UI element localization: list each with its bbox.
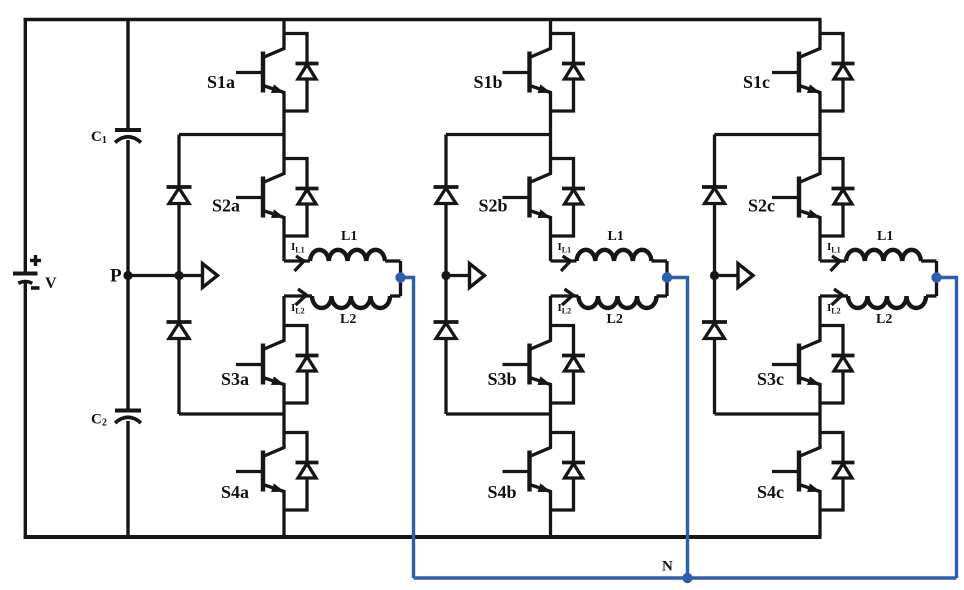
svg-text:L1: L1 — [608, 229, 624, 244]
wire: capacitor rail upper — [126, 18, 129, 130]
wire: L2 to S3c collector — [818, 296, 821, 326]
svg-text:S1b: S1b — [474, 72, 503, 92]
transistor S3a (IGBT) — [236, 326, 285, 404]
inductor L2 (phase a) — [284, 296, 401, 308]
svg-text:L2: L2 — [607, 312, 623, 327]
wire: S4b emitter to bottom bus — [549, 510, 552, 537]
wire: S2b emitter to L1 — [549, 236, 552, 261]
inductor L1 (phase b) — [551, 250, 668, 261]
transistor S1c (IGBT) — [772, 34, 821, 112]
current arrow IL1 (phase c) — [831, 256, 841, 271]
svg-text:S3a: S3a — [221, 369, 249, 389]
wire: clamp diode rail (phase b) — [444, 135, 447, 415]
node P dot — [123, 271, 132, 280]
wire: phase b output to N bus (blue) — [667, 278, 688, 579]
transistor S2a (IGBT) — [236, 159, 285, 237]
clamp diode lower, phase a — [167, 322, 192, 339]
wire: top bus to S1c collector — [818, 20, 821, 34]
svg-text:C2: C2 — [91, 412, 107, 429]
freewheeling diode of S3c — [820, 326, 855, 404]
wire: clamp diode rail (phase a) — [177, 135, 180, 415]
transistor S4a (IGBT) — [236, 433, 285, 511]
wire: junction to gate-drive arrow (phase c) — [715, 274, 739, 277]
battery V (DC source) — [13, 274, 38, 284]
arrow marker (phase b) — [470, 264, 485, 288]
freewheeling diode of S2c — [820, 159, 855, 237]
inductor L1 (phase c) — [820, 250, 937, 261]
wire: S4c emitter to bottom bus — [818, 510, 821, 537]
wire: S3c emitter to S4c collector — [818, 403, 821, 433]
svg-text:IL1: IL1 — [558, 241, 572, 255]
current arrow IL2 (phase c) — [832, 289, 843, 305]
wire: clamp top link (phase c) — [715, 133, 821, 136]
svg-text:IL1: IL1 — [291, 241, 305, 255]
wire: clamp bottom link (phase c) — [715, 412, 821, 415]
svg-text:IL1: IL1 — [827, 241, 841, 255]
svg-text:C1: C1 — [91, 129, 107, 146]
freewheeling diode of S1a — [284, 34, 319, 112]
inductor L1 (phase a) — [284, 250, 401, 261]
freewheeling diode of S3a — [284, 326, 319, 404]
svg-text:S4c: S4c — [757, 482, 784, 502]
current arrow IL2 (phase a) — [296, 289, 307, 305]
clamp diode upper, phase a — [167, 187, 192, 204]
current arrow IL2 (phase b) — [562, 289, 573, 305]
node: phase a output dot — [395, 272, 405, 282]
wire: L1/L2 output corner (phase a) — [399, 261, 402, 296]
svg-text:S3b: S3b — [488, 369, 517, 389]
wire: L2 to S3a collector — [282, 296, 285, 326]
clamp diode upper, phase c — [702, 187, 727, 204]
arrow marker (phase a) — [203, 264, 218, 288]
svg-text:L2: L2 — [340, 312, 356, 327]
junction dot: clamp midpoint phase b — [441, 271, 450, 280]
wire: capacitor rail middle — [126, 140, 129, 411]
svg-text:S1a: S1a — [207, 72, 235, 92]
wire: N bus (blue) — [414, 576, 957, 579]
wire: L1/L2 output corner (phase c) — [935, 261, 938, 296]
capacitor C1 — [115, 130, 141, 143]
transistor S3b (IGBT) — [503, 326, 552, 404]
wire: S3b emitter to S4b collector — [549, 403, 552, 433]
wire: clamp top link (phase a) — [179, 133, 284, 136]
transistor S4c (IGBT) — [772, 433, 821, 511]
svg-text:S2b: S2b — [479, 196, 508, 216]
svg-text:S4b: S4b — [488, 482, 517, 502]
wire: S1a emitter to S2a collector — [282, 111, 285, 159]
svg-text:P: P — [110, 266, 122, 287]
freewheeling diode of S2b — [551, 159, 586, 237]
capacitor C2 — [115, 411, 141, 424]
wire: capacitor rail lower — [126, 421, 129, 539]
wire: top bus to S1b collector — [549, 20, 552, 34]
wire: junction to gate-drive arrow (phase b) — [446, 274, 470, 277]
svg-text:S2a: S2a — [212, 196, 240, 216]
wire: clamp bottom link (phase b) — [446, 412, 551, 415]
wire: phase c output to N bus (blue) — [937, 278, 957, 579]
svg-text:S4a: S4a — [221, 482, 249, 502]
freewheeling diode of S1c — [820, 34, 855, 112]
node N dot — [682, 573, 692, 583]
svg-text:L2: L2 — [876, 312, 892, 327]
inductor L2 (phase c) — [820, 296, 937, 308]
svg-text:L1: L1 — [341, 229, 357, 244]
current arrow IL1 (phase a) — [295, 256, 305, 271]
transistor S3c (IGBT) — [772, 326, 821, 404]
label + (battery plus) — [30, 255, 41, 266]
wire: clamp bottom link (phase a) — [179, 412, 284, 415]
node: phase c output dot — [931, 272, 941, 282]
transistor S1a (IGBT) — [236, 34, 285, 112]
wire: top bus to S1a collector — [282, 20, 285, 34]
transistor S1b (IGBT) — [503, 34, 552, 112]
wire: left rail upper (battery +) — [24, 18, 27, 272]
wire: S3a emitter to S4a collector — [282, 403, 285, 433]
transistor S2c (IGBT) — [772, 159, 821, 237]
label - (battery minus) — [31, 286, 40, 290]
clamp diode lower, phase c — [702, 322, 727, 339]
current arrow IL1 (phase b) — [561, 256, 571, 271]
wire: L2 to S3b collector — [549, 296, 552, 326]
wire: S4a emitter to bottom bus — [282, 510, 285, 537]
arrow marker (phase c) — [738, 264, 753, 288]
svg-text:S3c: S3c — [757, 369, 784, 389]
svg-text:V: V — [45, 275, 57, 292]
wire: S2a emitter to L1 — [282, 236, 285, 261]
transistor S4b (IGBT) — [503, 433, 552, 511]
wire: top DC bus — [24, 18, 822, 21]
wire: S2c emitter to L1 — [818, 236, 821, 261]
svg-text:N: N — [662, 559, 673, 575]
wire: phase a output to N bus (blue) — [401, 278, 414, 579]
wire: S1b emitter to S2b collector — [549, 111, 552, 159]
wire: junction to gate-drive arrow (phase a) — [179, 274, 203, 277]
freewheeling diode of S2a — [284, 159, 319, 237]
wire: L1/L2 output corner (phase b) — [665, 261, 668, 296]
freewheeling diode of S1b — [551, 34, 586, 112]
junction dot: clamp midpoint phase a — [174, 271, 183, 280]
node: phase b output dot — [662, 272, 672, 282]
wire: left rail lower (battery -) — [24, 281, 27, 539]
transistor S2b (IGBT) — [503, 159, 552, 237]
clamp diode upper, phase b — [434, 187, 459, 204]
inductor L2 (phase b) — [551, 296, 668, 308]
freewheeling diode of S4c — [820, 433, 855, 511]
svg-text:L1: L1 — [877, 229, 893, 244]
wire: clamp diode rail (phase c) — [713, 135, 716, 415]
junction dot: clamp midpoint phase c — [710, 271, 719, 280]
wire: P to phase-a clamp junction — [128, 274, 179, 277]
wire: S1c emitter to S2c collector — [818, 111, 821, 159]
freewheeling diode of S4a — [284, 433, 319, 511]
wire: clamp top link (phase b) — [446, 133, 551, 136]
freewheeling diode of S3b — [551, 326, 586, 404]
clamp diode lower, phase b — [434, 322, 459, 339]
freewheeling diode of S4b — [551, 433, 586, 511]
wire: bottom DC bus — [24, 535, 822, 539]
svg-text:S1c: S1c — [743, 72, 770, 92]
svg-text:S2c: S2c — [748, 196, 775, 216]
